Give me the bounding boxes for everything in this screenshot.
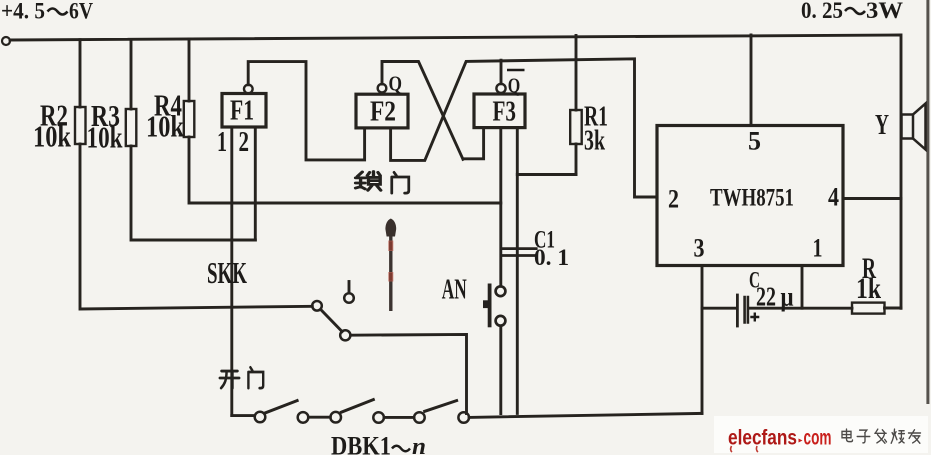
svg-text:1: 1	[813, 234, 823, 263]
svg-text:TWH8751: TWH8751	[710, 185, 794, 212]
svg-text:SKK: SKK	[207, 255, 247, 290]
svg-text:10k: 10k	[146, 109, 185, 144]
svg-text:0. 1: 0. 1	[534, 245, 569, 270]
svg-text:Q: Q	[389, 72, 403, 96]
svg-text:10k: 10k	[33, 119, 72, 154]
svg-text:10k: 10k	[87, 120, 124, 155]
svg-text:AN: AN	[442, 274, 467, 306]
svg-text:μ: μ	[781, 282, 794, 312]
svg-text:com: com	[804, 427, 832, 450]
svg-text:F3: F3	[493, 97, 517, 128]
svg-text:n: n	[412, 434, 426, 455]
svg-text:4: 4	[828, 183, 839, 212]
svg-text:5: 5	[748, 127, 761, 156]
svg-text:1k: 1k	[856, 272, 881, 305]
svg-text:3W: 3W	[866, 0, 903, 23]
svg-text:DBK1: DBK1	[331, 432, 391, 455]
svg-text:F1: F1	[230, 96, 254, 127]
svg-text:22: 22	[756, 282, 776, 312]
svg-text:elecfans: elecfans	[728, 427, 797, 450]
svg-text:2: 2	[239, 127, 250, 158]
svg-text:Q: Q	[508, 74, 521, 98]
svg-text:+4. 5: +4. 5	[1, 0, 45, 24]
svg-text:Y: Y	[875, 109, 889, 141]
svg-text:3k: 3k	[584, 126, 605, 157]
svg-text:6V: 6V	[69, 0, 93, 24]
svg-text:0. 25: 0. 25	[801, 0, 843, 23]
svg-text:3: 3	[694, 234, 705, 263]
svg-text:1: 1	[217, 127, 227, 158]
svg-text:F2: F2	[370, 97, 396, 128]
svg-text:2: 2	[668, 185, 679, 214]
